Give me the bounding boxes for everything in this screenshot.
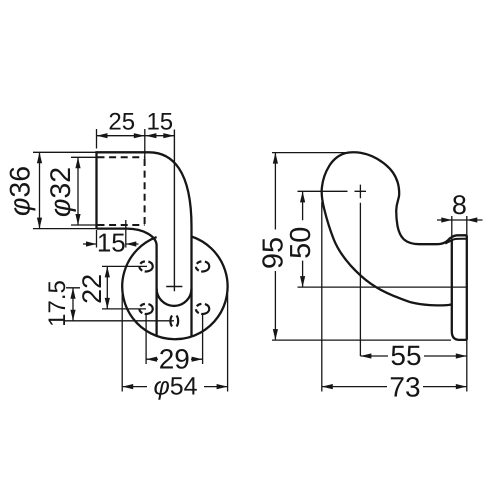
flange horizontal centerline — [298, 286, 467, 288]
arrowheads dim 22 — [102, 266, 147, 309]
55 dim — [360, 355, 466, 357]
socket outline + right sweep + stem right edge — [97, 152, 192, 336]
left view texts — [108, 109, 173, 136]
svg-text:73: 73 — [389, 372, 420, 403]
dim+ext lines phi36 — [33, 152, 97, 228]
dim+ext lines 15 lower — [83, 220, 139, 248]
arrowheads dim phi54 — [122, 384, 133, 389]
svg-text:29: 29 — [159, 344, 190, 375]
svg-text:17.5: 17.5 — [44, 280, 71, 327]
arrowheads right view — [273, 153, 478, 390]
arrowheads dim 95 — [273, 153, 278, 164]
svg-text:50: 50 — [285, 227, 317, 259]
dim+ext lines phi32 — [71, 157, 97, 225]
arrowheads dim 15 top — [145, 133, 156, 138]
arrowheads dim 73 — [322, 384, 333, 389]
svg-text:φ54: φ54 — [153, 373, 197, 401]
arrowheads dim 8 — [441, 217, 452, 222]
dim text phi54 — [147, 377, 204, 396]
arrowheads dim 17.5 — [70, 288, 75, 299]
dimensions of left view — [33, 129, 228, 392]
U slot bottom arc — [157, 289, 192, 306]
arrowheads dim 17.5 — [65, 288, 174, 321]
95 dim line broken for text — [274, 153, 276, 341]
arrowheads dim phi54 — [122, 294, 227, 392]
arrowheads dim 15 lower — [86, 241, 97, 246]
svg-text:55: 55 — [390, 340, 421, 371]
8 dim — [437, 216, 483, 240]
hidden bore dashed lines — [98, 157, 145, 225]
socket bottom + corner + stem left edge — [97, 229, 157, 337]
arrowheads left view — [37, 133, 228, 389]
arrowheads dim phi32 — [75, 157, 80, 168]
arrowheads dim 50 — [300, 191, 305, 202]
50 top ext + center cross — [298, 185, 367, 356]
50 dim line broken — [302, 191, 304, 287]
wall plate — [452, 241, 467, 340]
dim text 73 — [387, 376, 423, 397]
svg-text:φ32: φ32 — [45, 167, 77, 217]
fillet second edge at arm/plate junction — [445, 239, 467, 244]
dim text 29 — [158, 348, 191, 369]
arrowheads dim 55 — [360, 353, 371, 358]
arrowheads dim 22 — [105, 266, 110, 277]
svg-text:25: 25 — [108, 109, 135, 136]
dim lines 25/15 top — [97, 129, 175, 160]
arrowheads dim 29 — [146, 357, 157, 362]
svg-text:φ36: φ36 — [5, 166, 37, 216]
dim text 55 — [388, 345, 424, 366]
arrowheads dim phi36 — [37, 152, 42, 163]
dim text 15 (lower) — [99, 233, 125, 253]
svg-text:15: 15 — [97, 228, 126, 258]
svg-text:22: 22 — [77, 274, 107, 304]
arrowheads dim 29 — [146, 314, 203, 364]
centerline + center cross — [166, 130, 182, 292]
screw holes: dashed ellipses — [139, 261, 152, 271]
95 ext lines — [272, 153, 451, 341]
svg-text:15: 15 — [146, 109, 173, 136]
flange circle (hidden behind stem at top) — [122, 237, 227, 340]
bracket outline: plate top edge, arm upper edge, knob, arm lower edge — [322, 152, 467, 305]
arrowheads dim 25 — [97, 133, 108, 138]
svg-text:8: 8 — [452, 190, 467, 220]
73 dim + ext — [322, 202, 467, 392]
